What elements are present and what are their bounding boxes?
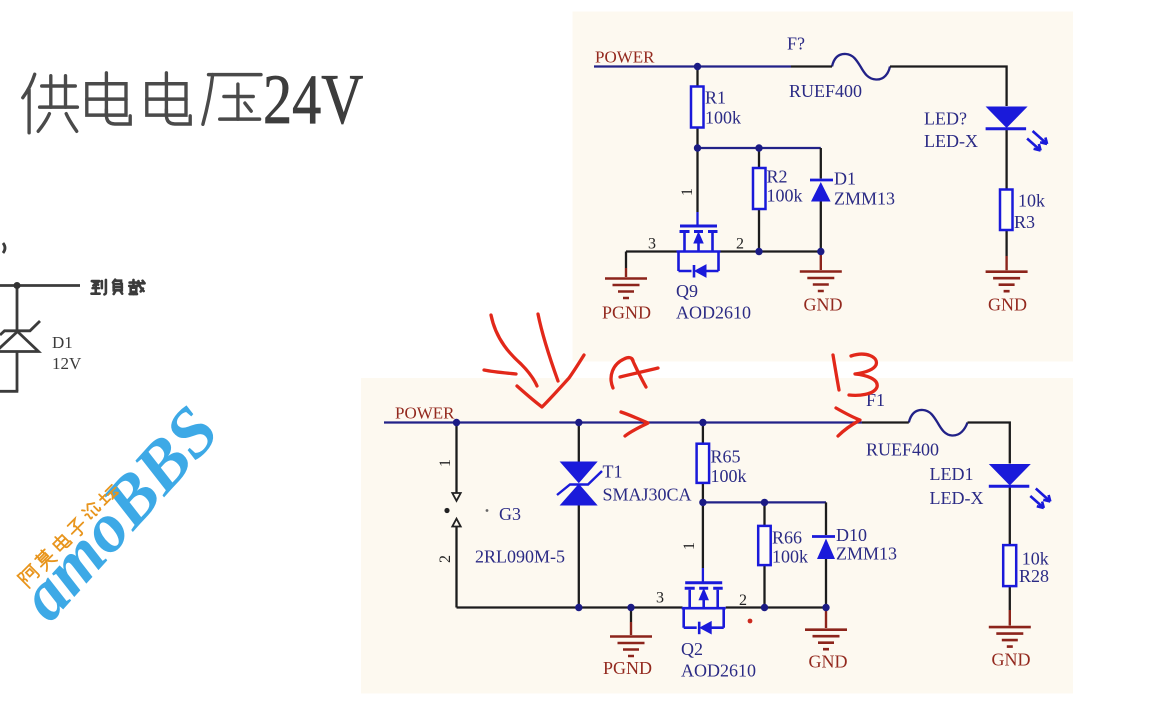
svg-text:LED-X: LED-X [924,131,978,151]
svg-text:R2: R2 [767,167,788,187]
svg-text:GND: GND [988,295,1027,315]
svg-text:D10: D10 [836,525,867,545]
svg-text:100k: 100k [767,186,803,206]
svg-text:RUEF400: RUEF400 [789,81,862,101]
svg-text:2: 2 [736,236,744,253]
svg-text:100k: 100k [705,108,741,128]
svg-text:100k: 100k [772,547,808,567]
svg-text:GND: GND [804,295,843,315]
svg-text:12V: 12V [52,354,82,373]
svg-text:PGND: PGND [603,658,652,678]
svg-text:RUEF400: RUEF400 [866,440,939,460]
svg-text:SMAJ30CA: SMAJ30CA [603,485,692,505]
svg-text:G3: G3 [499,504,521,524]
svg-text:1: 1 [437,459,454,467]
svg-text:1: 1 [681,542,698,550]
svg-text:100k: 100k [711,466,747,486]
svg-text:R65: R65 [711,447,741,467]
svg-text:D1: D1 [834,169,856,189]
svg-text:LED?: LED? [924,109,967,129]
svg-text:Q2: Q2 [681,639,703,659]
svg-text:3: 3 [656,590,664,607]
svg-text:1: 1 [679,188,696,196]
svg-text:R1: R1 [705,88,726,108]
svg-text:2: 2 [437,555,454,563]
svg-text:R66: R66 [772,528,802,548]
svg-text:AOD2610: AOD2610 [676,303,751,323]
svg-text:PGND: PGND [602,303,651,323]
svg-text:24V: 24V [263,61,363,140]
svg-text:10k: 10k [1018,191,1045,211]
svg-text:Q9: Q9 [676,281,698,301]
svg-text:GND: GND [809,652,848,672]
svg-text:D1: D1 [52,333,73,352]
svg-text:R28: R28 [1019,566,1049,586]
svg-text:LED-X: LED-X [930,488,984,508]
svg-text:ZMM13: ZMM13 [836,544,897,564]
svg-text:2RL090M-5: 2RL090M-5 [475,547,565,567]
svg-text:2: 2 [739,592,747,609]
svg-text:R3: R3 [1014,212,1035,232]
svg-text:POWER: POWER [595,48,655,67]
svg-text:ZMM13: ZMM13 [834,189,895,209]
svg-text:AOD2610: AOD2610 [681,661,756,681]
svg-text:3: 3 [648,236,656,253]
svg-text:T1: T1 [603,462,623,482]
svg-text:F?: F? [787,34,805,54]
svg-text:GND: GND [992,650,1031,670]
svg-text:POWER: POWER [395,404,455,423]
svg-text:LED1: LED1 [930,464,974,484]
